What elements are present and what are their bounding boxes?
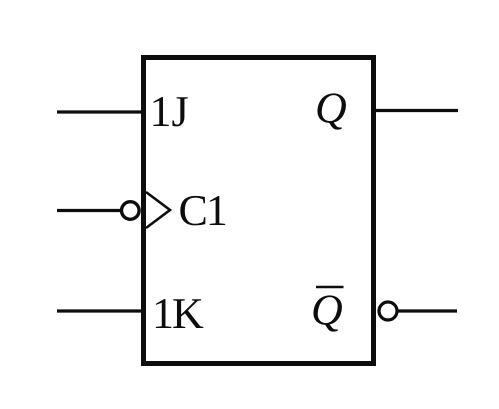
flip-flop U1 body: [144, 58, 374, 364]
pin label Q-bar: [313, 295, 342, 331]
pin label Q: [317, 93, 346, 129]
output inversion bubble: [379, 302, 397, 320]
clock edge-trigger triangle: [146, 192, 170, 228]
overline of Q-bar: [316, 286, 344, 289]
pin label C1: [180, 196, 225, 226]
wire C1 clock input: [57, 209, 121, 212]
wire Q output: [374, 109, 458, 112]
wire Q-bar output: [399, 309, 458, 312]
wire 1K input: [57, 309, 143, 312]
pin label 1K: [156, 299, 203, 328]
pin label 1J: [153, 97, 187, 126]
wire 1J input: [57, 110, 143, 113]
clock inversion bubble: [122, 202, 140, 220]
